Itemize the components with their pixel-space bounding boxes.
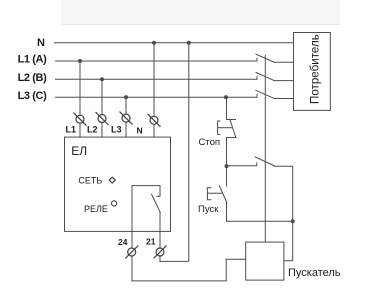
contactor main contact L2 — [256, 73, 294, 81]
svg-text:24: 24 — [118, 237, 128, 247]
auxiliary contact KM (NO, seal-in) — [227, 157, 293, 221]
contactor main contact L3 — [256, 90, 294, 98]
wire N bus — [55, 42, 294, 44]
svg-text:L1 (A): L1 (A) — [18, 53, 48, 65]
terminal 21 — [154, 246, 167, 259]
svg-text:Стоп: Стоп — [199, 137, 221, 148]
wire junction to coil — [284, 221, 293, 260]
svg-text:СЕТЬ: СЕТЬ — [78, 175, 102, 185]
wire dropper L2 to terminal — [101, 79, 103, 137]
node N-riser junction — [187, 41, 191, 45]
terminal L3 input — [120, 112, 133, 125]
wire 24 to starter coil — [132, 259, 246, 281]
svg-text:N: N — [37, 37, 45, 49]
svg-text:L3 (C): L3 (C) — [18, 90, 48, 102]
wire contact to terminal 21 — [159, 213, 161, 262]
svg-text:ЕЛ: ЕЛ — [71, 144, 87, 158]
node L2 junction — [100, 77, 104, 81]
svg-text:L3: L3 — [111, 124, 122, 134]
relay U1 box EL — [65, 137, 171, 231]
wire dropper L1 to terminal — [79, 61, 81, 137]
node L3 stop-branch junction — [224, 95, 228, 99]
svg-text:N: N — [137, 125, 143, 135]
node N-terminal junction — [152, 41, 156, 45]
wire N to terminal 21 riser — [160, 43, 189, 262]
svg-text:21: 21 — [146, 237, 156, 247]
wire contact to terminal 24 — [131, 186, 133, 281]
wire L3 bus — [56, 96, 258, 98]
svg-text:Пуск: Пуск — [198, 204, 219, 215]
pushbutton Stop (NC) — [218, 97, 237, 166]
wire L2 bus — [56, 78, 258, 80]
svg-text:L2: L2 — [87, 124, 98, 134]
pushbutton Start (NO) — [207, 166, 292, 221]
terminal 24 — [125, 246, 138, 259]
terminal L2 input — [96, 112, 109, 125]
wire L1 bus — [56, 60, 258, 62]
svg-text:Потребитель: Потребитель — [308, 34, 321, 104]
node coil feed junction — [291, 219, 295, 223]
svg-text:РЕЛЕ: РЕЛЕ — [84, 204, 108, 214]
wire dropper L3 to terminal — [125, 97, 127, 137]
terminal L1 input — [74, 113, 87, 126]
terminal N input — [148, 114, 161, 127]
svg-text:L2 (B): L2 (B) — [18, 72, 48, 84]
node stop/start junction — [225, 164, 229, 168]
starter coil box — [246, 242, 284, 280]
wire dropper N to terminal — [153, 43, 155, 137]
relay output contact (inside EL) — [132, 186, 246, 281]
load box Potrebitel — [294, 33, 331, 111]
svg-text:L1: L1 — [66, 124, 77, 134]
contactor mechanical link — [264, 55, 266, 242]
node L1 junction — [78, 59, 82, 63]
wire start bottom to junction — [227, 220, 293, 222]
background band — [61, 0, 340, 25]
svg-text:Пускатель: Пускатель — [288, 267, 341, 279]
contactor main contact L1 — [256, 54, 294, 62]
node L3 junction — [124, 95, 128, 99]
